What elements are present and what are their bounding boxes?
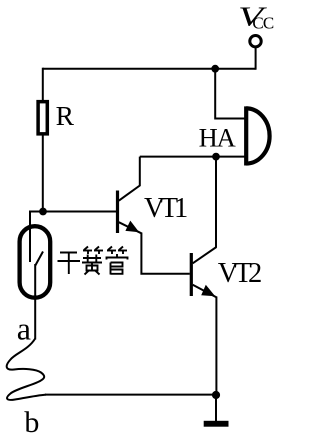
svg-text:HA: HA	[199, 122, 236, 152]
svg-text:VT2: VT2	[218, 258, 262, 289]
svg-text:a: a	[17, 310, 31, 346]
svg-text:CC: CC	[252, 14, 274, 33]
svg-text:b: b	[24, 406, 39, 437]
svg-text:VT1: VT1	[144, 193, 188, 224]
svg-text:R: R	[56, 100, 75, 131]
